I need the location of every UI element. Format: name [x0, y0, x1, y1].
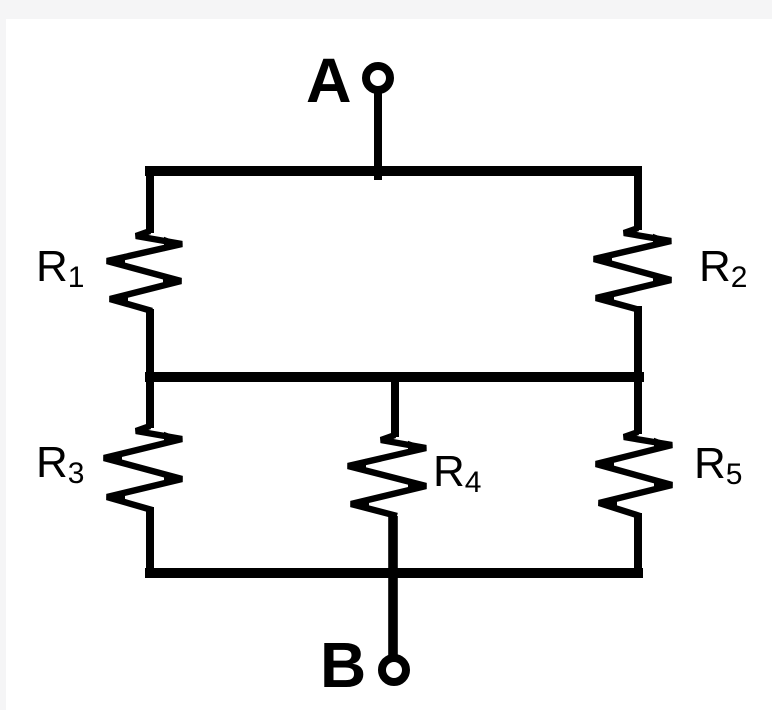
border band left — [0, 0, 6, 710]
svg-text:B: B — [320, 629, 366, 701]
wire right branch between R2 and R5 — [634, 306, 642, 434]
wire top horizontal — [145, 166, 640, 176]
wire left branch lower — [146, 507, 154, 578]
resistor R5 — [595, 432, 673, 516]
wire right branch upper — [634, 166, 642, 230]
wire right branch lower — [634, 513, 642, 578]
wire terminal A vertical — [374, 93, 382, 180]
wire middle branch lower — [388, 516, 398, 573]
terminal B circle — [382, 658, 406, 682]
wire bottom horizontal — [145, 568, 643, 578]
resistor R4 — [347, 435, 427, 516]
wire middle horizontal — [145, 372, 644, 382]
resistor R3 — [103, 426, 183, 510]
wire middle branch upper — [391, 372, 399, 437]
svg-text:A: A — [306, 46, 352, 116]
wire terminal B vertical — [388, 568, 398, 655]
terminal A circle — [366, 66, 390, 90]
wire left branch upper — [146, 166, 154, 233]
resistor R1 — [106, 231, 183, 311]
wire left branch between R1 and R3 — [146, 309, 154, 428]
resistor R2 — [593, 228, 672, 310]
border band top — [0, 0, 772, 19]
